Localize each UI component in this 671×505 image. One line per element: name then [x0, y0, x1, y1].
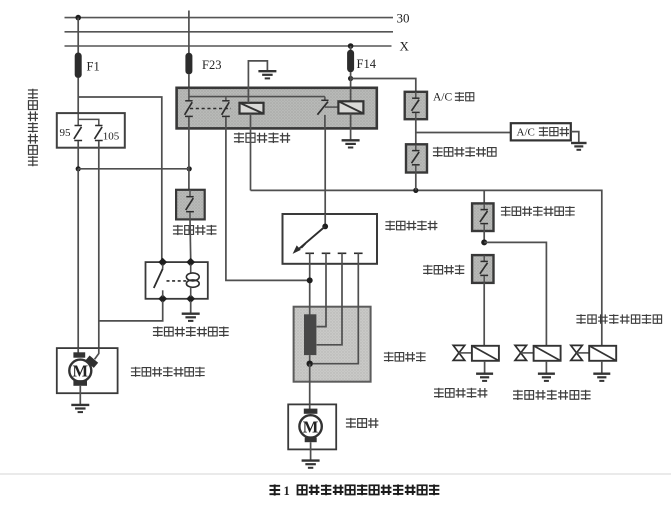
label condenser fan motor	[131, 367, 205, 377]
outside temp switch contact	[412, 145, 420, 173]
wire coil K1 bottom to temp-switch bus	[250, 114, 252, 191]
wire contact2 to resistor tap1	[317, 265, 326, 327]
svg-text:A/C: A/C	[433, 92, 453, 104]
component water temperature switch box	[57, 113, 125, 148]
node junction under F14	[348, 76, 353, 81]
component condenser fan motor box	[57, 348, 118, 393]
component evaporator temperature switch box	[472, 203, 493, 231]
svg-text:A/C: A/C	[517, 126, 535, 138]
node junction B	[187, 166, 192, 171]
label pressure switch	[173, 225, 217, 235]
label F1	[87, 60, 100, 74]
blower motor bottom brush	[305, 437, 317, 442]
wire condenser motor to ground	[79, 386, 81, 405]
wire junction A to condenser motor	[77, 169, 79, 353]
fan relay terminal bottom-right	[186, 294, 195, 303]
wire bus to F23	[188, 11, 190, 54]
wire into blower motor	[309, 404, 311, 409]
component variable speed resistor box	[294, 307, 371, 382]
node junction A	[76, 166, 81, 171]
wire relay S1 to pressure switch	[188, 117, 190, 190]
label low pressure switch	[423, 265, 464, 275]
fan relay terminal bottom-left	[158, 294, 167, 303]
wire bus30 to F1	[77, 18, 79, 54]
switch 95C contact	[74, 126, 82, 141]
wire blower motor to ground	[310, 442, 312, 460]
wire contact1 to resistor	[309, 265, 311, 315]
svg-text:95: 95	[60, 127, 72, 139]
wire lamp to ground	[571, 132, 579, 143]
label F23	[202, 58, 221, 72]
blower switch wiper pivot	[322, 214, 328, 229]
wire internal feed split	[78, 114, 99, 125]
component outside temperature switch box	[406, 144, 427, 172]
wire 105-switch down to motor terminal	[95, 141, 99, 359]
label F14	[357, 57, 377, 71]
svg-text:105: 105	[103, 130, 120, 142]
ground (fan relay)	[182, 314, 200, 321]
wire bus (middle)	[65, 31, 394, 33]
wire F1 branch to fan relay	[78, 97, 162, 262]
fuse F23	[185, 53, 192, 75]
wire bus X	[65, 39, 410, 54]
wire contact4 to resistor bottom node	[313, 265, 358, 364]
svg-text:M: M	[303, 418, 319, 437]
wire A/C switch to outside-temp switch	[415, 119, 417, 144]
wire relay S3 to blower switch wiper	[324, 129, 326, 227]
component fan high-speed relay box	[146, 262, 208, 299]
label A/C switch	[433, 92, 474, 104]
node junction bus30/F1	[75, 15, 81, 21]
wire into condenser motor (terminal)	[95, 348, 99, 359]
ground (A/C lamp)	[571, 143, 587, 150]
fan relay coil winding	[186, 264, 199, 296]
node junction outside-temp	[413, 188, 418, 193]
wire pressure switch internal	[189, 212, 191, 219]
blower switch wiper arm	[293, 226, 326, 254]
svg-text:30: 30	[397, 11, 410, 26]
motor M2 blower	[299, 415, 321, 437]
label fan high-speed relay	[153, 327, 229, 337]
relay switch S3	[317, 97, 338, 129]
wire pressure switch to fan relay coil	[189, 219, 192, 259]
wire F14 to A/C switch	[351, 79, 416, 93]
component A/C switch box	[405, 92, 427, 119]
label 105	[103, 130, 120, 142]
caption figure 1	[269, 484, 439, 498]
wire into condenser motor (brush)	[77, 348, 79, 353]
ground (blower motor)	[302, 461, 320, 468]
wire coil K1 to ground	[248, 61, 267, 103]
solenoid valve V3 (recirculation)	[571, 345, 616, 381]
wire 95-switch down	[77, 141, 79, 169]
ground (condenser motor)	[71, 405, 89, 412]
wire coil K2 to ground	[350, 114, 352, 140]
wire F1 to water-temp switch	[77, 78, 79, 114]
wire branch to A/C lamp	[416, 132, 511, 134]
label engine water temperature switch (vertical)	[28, 89, 38, 167]
label A/C indicator lamp	[517, 126, 570, 138]
node junction contact1/relay-S2	[307, 277, 313, 283]
switch 105C contact	[95, 126, 103, 141]
component low pressure switch box	[472, 255, 493, 283]
label evaporator temperature switch	[501, 206, 575, 216]
label 95	[60, 127, 72, 139]
fan relay terminal top-left	[158, 258, 167, 267]
blower motor top brush	[304, 409, 318, 414]
wire low pressure switch to clutch	[483, 283, 485, 346]
label variable resistor	[384, 352, 426, 362]
wire contact3 to resistor tap2	[317, 265, 342, 345]
svg-text:X: X	[400, 39, 410, 54]
condenser motor bottom brush	[73, 380, 87, 386]
fan relay switch contact	[154, 264, 163, 296]
relay S1-S2 mechanical link (dashed)	[190, 108, 231, 110]
wire resistor node to blower motor	[309, 364, 311, 409]
svg-text:M: M	[73, 362, 89, 381]
relay coil K2	[338, 88, 363, 114]
node resistor output	[307, 361, 313, 367]
fan relay link (dashed)	[167, 280, 187, 282]
wire fan relay coil to ground	[190, 301, 192, 313]
node junction busX/F14	[348, 43, 354, 49]
relay switch S1	[185, 88, 193, 116]
wire junction A-B	[78, 168, 189, 170]
svg-text:F1: F1	[87, 60, 100, 74]
component pressure switch box	[176, 190, 205, 220]
faint divider line	[0, 473, 671, 475]
wire bus 30	[65, 11, 410, 26]
wire temperature bus	[251, 190, 602, 346]
condenser motor top brush	[73, 352, 85, 357]
low pressure switch contact	[480, 255, 488, 282]
ground (below relay)	[342, 140, 360, 147]
pressure switch contact	[186, 190, 194, 212]
relay switch S2	[222, 97, 230, 117]
wire relay internal bus	[189, 96, 325, 98]
label A/C relay	[234, 133, 290, 144]
ground (above relay)	[258, 71, 276, 78]
fuse F14	[347, 50, 354, 72]
wire bus to evaporator switch	[483, 190, 485, 203]
evaporator switch contact	[480, 204, 488, 231]
wire outside temp switch to bus	[415, 172, 417, 190]
component A/C indicator lamp box	[511, 123, 571, 140]
fuse F1	[75, 53, 82, 79]
wire resistor to bottom node	[309, 355, 311, 364]
fan relay terminal top-right	[186, 258, 195, 267]
solenoid valve V1 (compressor clutch)	[453, 345, 499, 381]
label speed-up vacuum solenoid valve	[513, 390, 591, 400]
motor M1 condenser fan	[69, 360, 91, 382]
solenoid valve V2 (idle speed-up)	[515, 345, 561, 381]
label electromagnetic clutch	[434, 388, 487, 398]
blower switch contacts 1-4	[305, 253, 362, 264]
component A/C relay box	[177, 88, 377, 129]
svg-text:1: 1	[284, 484, 290, 498]
wire busX to F14	[350, 46, 352, 51]
relay coil K1	[240, 103, 264, 114]
label blower switch	[385, 221, 437, 231]
component blower switch box	[283, 214, 378, 264]
svg-text:F14: F14	[357, 57, 377, 71]
condenser motor side terminal	[85, 355, 98, 367]
resistor element	[304, 314, 316, 355]
wire F23 to AC relay	[188, 74, 190, 89]
label blower motor	[346, 418, 378, 428]
wire junction to speed-up valve	[484, 242, 546, 346]
svg-text:F23: F23	[202, 58, 221, 72]
node junction evaporator out	[481, 239, 487, 245]
wire F14 to relay coil K2	[350, 72, 352, 102]
A/C switch contact	[412, 92, 420, 119]
label outside temperature switch	[433, 147, 496, 157]
wire evaporator switch to junction	[483, 231, 485, 242]
component blower motor box	[288, 404, 336, 449]
wire relay S2 to resistor node	[226, 117, 310, 281]
wire fan relay contact to motor wire	[99, 301, 162, 321]
label recirculation vacuum solenoid valve	[576, 314, 661, 324]
